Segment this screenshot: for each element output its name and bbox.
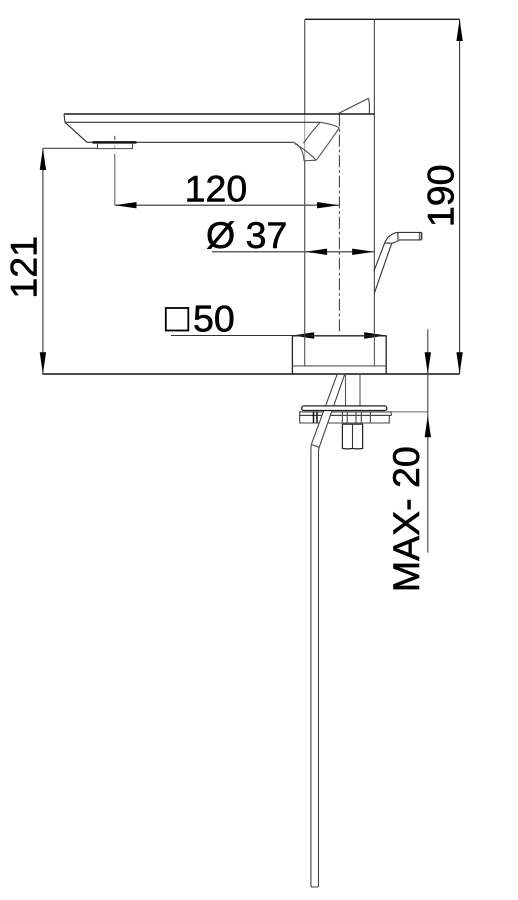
spout tip diagonal [65,122,87,142]
large washer [302,406,387,411]
dimension 50 right arrow [364,332,386,338]
spout underside line [87,141,294,143]
hose bend crease [312,445,320,448]
faucet body left edge [304,19,306,114]
aerator dark bar [93,141,137,144]
dimension 121 vertical line [42,148,44,374]
svg-text:190: 190 [420,165,462,228]
dimension 50 leader line [171,335,293,337]
dimension 50 square symbol [166,308,189,331]
svg-text:Ø 37: Ø 37 [206,214,287,256]
dimension 121 extension line [43,147,98,149]
spout rear top triangle [338,98,369,114]
dimension D37 right arrow [352,249,374,255]
faucet body right edge [373,19,375,336]
dimension D37 leader line [212,251,374,253]
counter top line [42,373,459,375]
dimension MAX-20 extension line [391,411,428,413]
spout second top line [65,121,320,123]
dimension D37 left arrow [305,249,327,255]
threaded stud [345,374,347,406]
flexible hose [311,374,345,887]
spout top line [64,113,374,115]
dimension 190 top arrow [456,19,462,41]
dimension 120 line [115,204,339,206]
aerator box [98,144,133,149]
svg-text:120: 120 [185,168,248,210]
svg-text:121: 121 [3,236,45,299]
dimension 50 left arrow [293,332,315,338]
mounting bracket plates [300,412,392,423]
dimension 120 right arrow [317,202,339,208]
spout-body fillet curves [320,122,339,127]
dimension 120 left arrow [115,202,137,208]
svg-text:50: 50 [193,298,235,340]
lever handle [374,232,422,292]
base escutcheon [292,336,386,374]
dimension 121 top arrow [40,148,46,170]
top extension line [305,18,460,20]
body centerline [338,114,340,333]
dimension MAX-20 up arrow [425,416,431,438]
dimension MAX-20 down arrow [425,352,431,374]
body edges inside base [304,336,306,366]
base inner line [292,365,386,367]
dimension 190 bottom arrow [456,352,462,374]
spout tip cap [64,114,65,122]
spout outlet centerline [114,136,116,140]
svg-text:MAX- 20: MAX- 20 [385,446,427,592]
hex nut [342,424,362,449]
dimension 121 bottom arrow [40,352,46,374]
dimension 190 vertical line [459,19,461,374]
dimension MAX-20 vertical line [427,329,429,552]
